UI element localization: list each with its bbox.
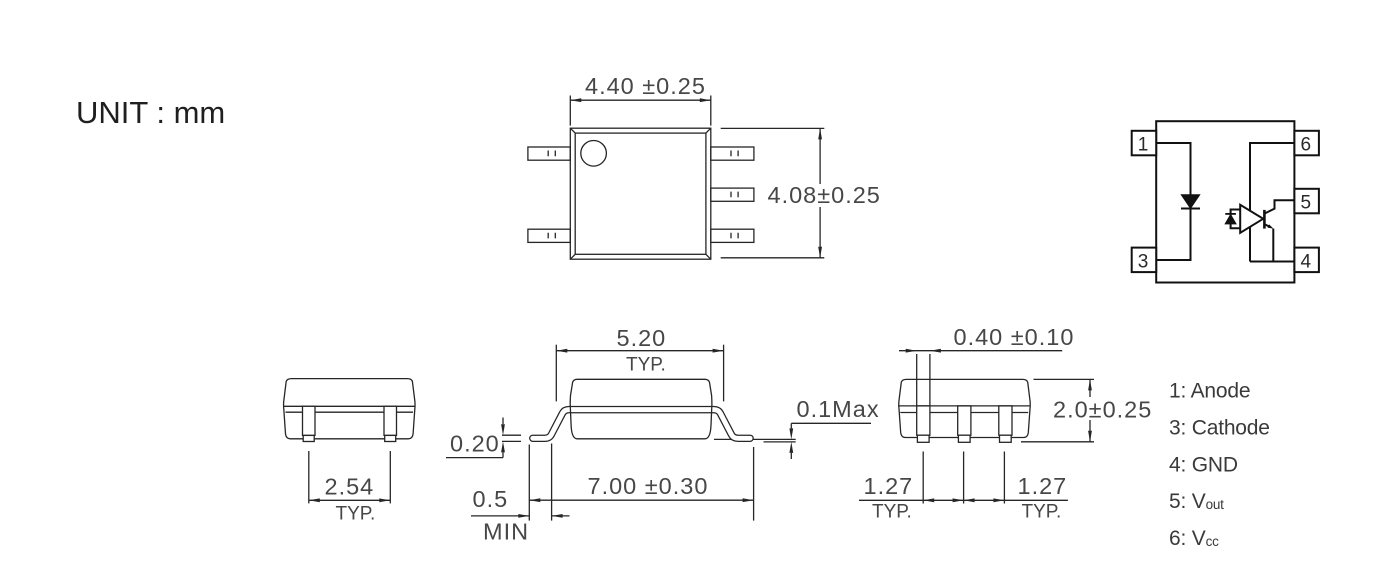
dimension 4.08±0.25 (top view height) [721, 128, 881, 257]
svg-text:1.27: 1.27 [864, 473, 914, 499]
dimension 0.40 ±0.10 (lead width) [899, 324, 1074, 406]
schematic: pin box 6 [1294, 131, 1319, 156]
dimension 4.40 ±0.25 (top view width) [570, 73, 711, 126]
svg-text:6: 6 [1301, 135, 1312, 156]
transistor Q1 base bar [1263, 210, 1266, 229]
front view: lead 2 [958, 406, 971, 442]
transistor Q1 emitter wire to pin4 rail [1264, 224, 1273, 261]
svg-text:4.08±0.25: 4.08±0.25 [768, 182, 881, 208]
end view: mold parting line [283, 405, 415, 407]
svg-text:TYP.: TYP. [626, 354, 666, 375]
front view: body outline [899, 379, 1030, 437]
top view: pin 1 pad (left top) [528, 147, 570, 160]
end view: left lead [303, 406, 316, 441]
dimension 7.00 ±0.30 (lead span) [529, 445, 753, 521]
schematic: wire pin6 to rail [1250, 143, 1294, 262]
top view: package body outer outline [570, 128, 711, 259]
schematic: pin box 4 [1294, 248, 1319, 273]
schematic: wire pin1 to LED anode [1156, 143, 1190, 195]
svg-text:2.0±0.25: 2.0±0.25 [1053, 397, 1152, 423]
svg-text:5: Vout: 5: Vout [1169, 490, 1224, 513]
top view: pin 3 pad (left bottom) [528, 229, 570, 242]
svg-text:1: Anode: 1: Anode [1169, 379, 1250, 402]
dimension 1.27 TYP. (pitch right) [1018, 473, 1068, 522]
top view: pin 4 pad (right bottom) [711, 229, 754, 242]
top view: corner chamfer lines [570, 128, 711, 259]
front view: lead 3 [999, 406, 1012, 442]
svg-text:0.1Max: 0.1Max [797, 396, 880, 422]
front view: lower ledge line [900, 412, 1028, 414]
front view: mold parting line [898, 405, 1030, 407]
svg-text:0.40 ±0.10: 0.40 ±0.10 [954, 324, 1075, 350]
dimension 1.27 TYP. (pitch left) [859, 452, 1068, 523]
svg-text:4: 4 [1301, 251, 1312, 272]
side view: gull-wing leads band (white core) [533, 410, 750, 439]
top view: package body inner outline [575, 133, 706, 254]
top view: pin 1 index circle [581, 141, 607, 167]
svg-text:TYP.: TYP. [872, 501, 912, 522]
dimension 0.1Max (standoff) [764, 396, 880, 459]
svg-text:0.20: 0.20 [450, 431, 500, 457]
svg-text:1: 1 [1138, 135, 1149, 156]
svg-text:5: 5 [1301, 193, 1312, 214]
transistor Q1 collector wire to pin5 [1264, 200, 1294, 213]
LED D1 [1181, 195, 1200, 209]
svg-text:TYP.: TYP. [1022, 501, 1062, 522]
svg-text:5.20: 5.20 [617, 325, 667, 351]
end view: body outline [284, 379, 415, 439]
photodiode input bracket wires [1231, 210, 1241, 229]
end view: right lead [384, 406, 397, 441]
schematic: pin box 3 [1132, 248, 1157, 273]
front view: lead 1 [917, 406, 930, 442]
photodiode PD1 [1225, 214, 1236, 224]
svg-text:4: GND: 4: GND [1169, 454, 1238, 477]
dimension 0.20 (lead thickness) [446, 418, 521, 458]
svg-text:1.27: 1.27 [1018, 473, 1068, 499]
svg-text:UNIT : mm: UNIT : mm [76, 95, 225, 130]
side view: body outline [570, 379, 712, 439]
svg-text:4.40 ±0.25: 4.40 ±0.25 [585, 73, 706, 99]
svg-text:2.54: 2.54 [325, 474, 375, 500]
amplifier U1 triangle [1240, 205, 1263, 233]
svg-text:0.5: 0.5 [473, 486, 509, 512]
svg-text:3: 3 [1138, 251, 1149, 272]
svg-text:TYP.: TYP. [336, 503, 376, 524]
schematic: pin box 5 [1294, 189, 1319, 214]
dimension 2.54 TYP. (lead pitch) [309, 451, 391, 524]
dimension 2.0±0.25 (body height) [1021, 379, 1152, 441]
schematic: wire rail to pin4 [1250, 261, 1294, 263]
schematic: package body rectangle [1156, 121, 1294, 282]
schematic: pin box 1 [1132, 131, 1157, 156]
side view: gull-wing leads band (outline) [533, 410, 750, 439]
schematic: wire LED cathode to pin3 [1156, 209, 1190, 261]
svg-text:MIN: MIN [483, 519, 529, 545]
side view: seating plane line right [714, 438, 796, 440]
end view: lower ledge line [286, 411, 414, 413]
top view: pin 5 pad (right middle) [711, 188, 754, 201]
svg-text:3: Cathode: 3: Cathode [1169, 416, 1270, 439]
top view: pin 6 pad (right top) [711, 147, 754, 160]
dimension 0.5 MIN (foot length) [471, 444, 570, 545]
dimension 5.20 TYP. (body width) [556, 325, 723, 402]
svg-text:7.00 ±0.30: 7.00 ±0.30 [588, 473, 709, 499]
svg-text:6: Vcc: 6: Vcc [1169, 527, 1219, 550]
